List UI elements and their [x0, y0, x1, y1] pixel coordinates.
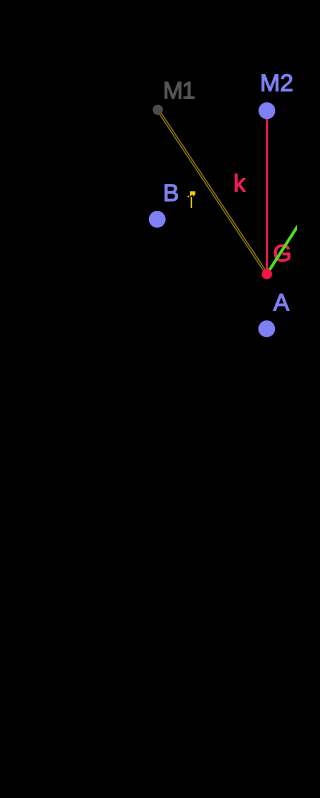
ray g from G: [267, 226, 298, 274]
vector i (small yellow arrow): [188, 191, 196, 208]
svg-text:k: k: [234, 171, 247, 198]
svg-text:B: B: [163, 180, 179, 207]
segment k M2-G: [266, 111, 268, 274]
svg-text:M2: M2: [260, 70, 293, 97]
point B: [149, 211, 166, 228]
point M1: [153, 105, 163, 115]
wire: olive double segment M1-G upper line: [159, 109, 268, 273]
svg-text:M1: M1: [163, 78, 195, 105]
point A: [258, 320, 275, 337]
wire: olive double segment M1-G lower line: [157, 110, 266, 274]
svg-text:G: G: [273, 241, 292, 268]
svg-text:A: A: [273, 290, 289, 317]
point M2: [259, 102, 276, 119]
point G: [262, 269, 272, 279]
